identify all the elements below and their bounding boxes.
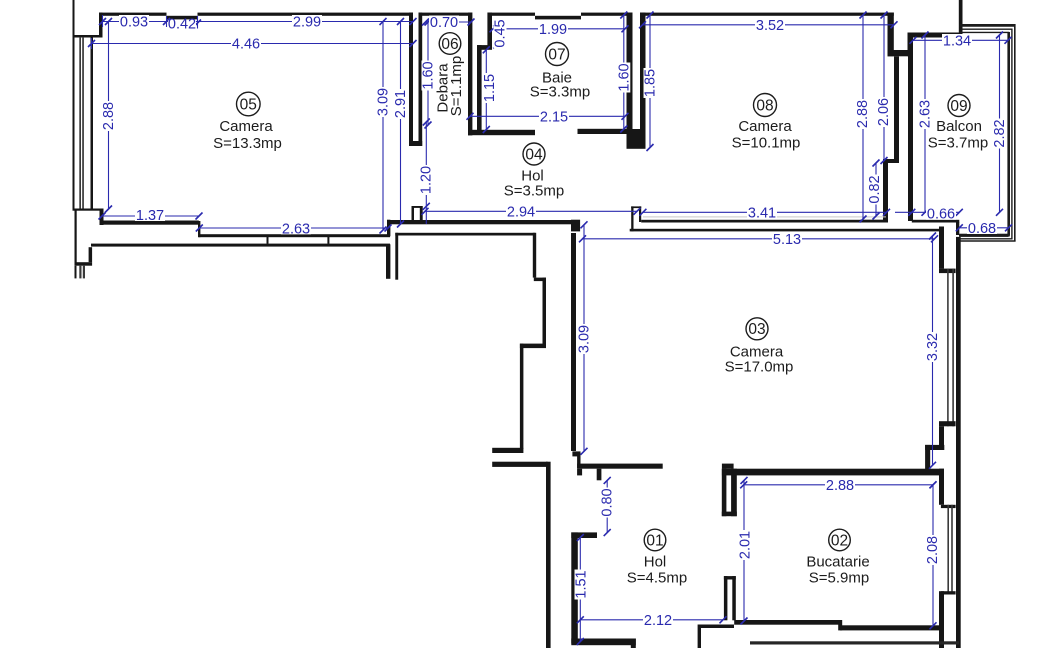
dimlabel 5.13 (772, 233, 802, 246)
wall room08 bottom (641, 220, 886, 223)
dim 1.85 vertical (649, 15, 651, 148)
wall debara left (419, 13, 423, 147)
window bucatarie sill bottom (941, 591, 956, 594)
dim 1.20 vertical (425, 122, 427, 224)
wall entrance jamb vertical (698, 628, 701, 648)
dim 5.13 line (583, 238, 935, 240)
svg-text:1.34: 1.34 (943, 34, 971, 50)
svg-text:05: 05 (240, 96, 257, 113)
wall room05 bottom segment1 (100, 221, 199, 225)
dimlabel 2.88 bucatarie (825, 479, 855, 492)
wall neighbor-left long wall (91, 244, 390, 247)
svg-text:02: 02 (831, 532, 848, 549)
dimlabel 1.60 debara (422, 61, 435, 91)
window room03 right sill bottom (939, 421, 956, 426)
wall rm08-balcony step (883, 159, 899, 163)
svg-text:07: 07 (548, 46, 565, 63)
svg-text:2.99: 2.99 (293, 15, 321, 31)
wall rm08-balcony lower (883, 161, 888, 223)
svg-text:2.08: 2.08 (925, 536, 941, 564)
wall hol01 top stub left (577, 469, 582, 476)
dim 3.52 line (643, 24, 895, 26)
dimlabel 1.20 (420, 165, 433, 195)
dim 4.46 line (92, 43, 414, 45)
wall balcony door side piece (956, 222, 959, 235)
wall right step bar (925, 445, 944, 450)
dimlabel 0.70 (429, 16, 459, 29)
wall bottom boundary line right (750, 641, 959, 644)
svg-text:3.41: 3.41 (748, 206, 776, 222)
dim 3.32 vertical (932, 236, 934, 465)
dimlabel 0.66 (926, 208, 956, 220)
wall baie bottom right (578, 129, 631, 134)
dim 1.60 debara vertical (427, 22, 429, 125)
wall niche bottom bar (888, 50, 913, 56)
faint line above room08 bottom wall (643, 216, 886, 217)
svg-text:09: 09 (950, 98, 967, 115)
wall baie top notch (535, 16, 581, 20)
wall niche right vertical (908, 33, 913, 57)
wall room05 bottom-left corner (100, 209, 104, 226)
room 08 circle (754, 94, 777, 117)
dimlabel 3.32 (926, 332, 939, 362)
wall neighbor bar3 (492, 448, 523, 453)
dimlabel 1.51 (575, 570, 588, 600)
dimlabel 3.52 (755, 18, 785, 31)
wall hol01 door stub (597, 469, 602, 481)
dim 0.45 vertical (496, 23, 498, 45)
door jamb top bar (412, 206, 423, 208)
wall right inner seg4 (939, 591, 944, 648)
dimlabel 2.63 balcony (919, 99, 932, 129)
svg-text:2.63: 2.63 (282, 221, 310, 237)
dimlabel 2.82 (993, 119, 1006, 149)
dim 1.37 line (102, 215, 199, 217)
wall piece B below room05 (386, 244, 390, 278)
dim 1.60 baie vertical (623, 15, 625, 129)
room 01 circle (644, 529, 666, 551)
wall hol01 bottom (571, 639, 636, 646)
dim 2.63 line bottom (199, 227, 388, 229)
svg-text:3.32: 3.32 (925, 333, 941, 361)
window bucatarie glazing (947, 505, 949, 595)
wall bucatarie left lower lineR (732, 576, 736, 620)
wall bottom cap x860 (860, 220, 888, 223)
room 06 circle (439, 33, 461, 55)
svg-text:0.66: 0.66 (927, 207, 955, 223)
wall bucatarie bottom lower part (838, 620, 842, 630)
dim 2.82 vertical x999.5 (999, 35, 1001, 212)
dim 2.15 line (470, 115, 625, 117)
svg-text:Balcon: Balcon (936, 118, 982, 135)
wall room03 top-left corner (571, 220, 580, 232)
wall baie right (627, 13, 633, 130)
svg-text:2.12: 2.12 (644, 613, 672, 629)
wall right outer line (956, 237, 961, 648)
dimlabel 0.82 (868, 175, 881, 205)
wall right of balcony door (912, 220, 960, 223)
door jamb left leg (412, 206, 415, 221)
dimlabel 3.41 (747, 206, 777, 219)
svg-text:2.06: 2.06 (876, 98, 892, 126)
dimlabel 0.42 (168, 21, 196, 31)
dim 2.88 left vertical (108, 22, 110, 210)
dim 2.63 vertical x925 (924, 35, 926, 212)
svg-text:08: 08 (756, 97, 773, 114)
wall neighbor unit left (395, 233, 398, 280)
wall bucatarie bottom upper part (734, 620, 840, 625)
dim 3.41 line (643, 211, 887, 213)
dim 3.09 vertical x383 (382, 22, 384, 231)
wall baie step bar (477, 45, 492, 50)
svg-text:2.94: 2.94 (507, 205, 535, 221)
svg-text:0.70: 0.70 (430, 15, 458, 31)
dimlabel 2.88 x863 (856, 99, 869, 129)
dimlabel 2.12 (643, 614, 673, 627)
svg-text:01: 01 (646, 532, 663, 549)
wall room05 bottom segment2 (199, 234, 391, 237)
dim 0.82 vertical (875, 163, 877, 216)
svg-text:3.52: 3.52 (756, 18, 784, 34)
wall window sill top (73, 35, 101, 38)
dimlabel 0.80 (601, 488, 614, 518)
room 02 circle (829, 529, 851, 551)
parapet middle (960, 28, 1011, 30)
svg-text:S=3.3mp: S=3.3mp (530, 83, 590, 100)
wall bucatarie left lower cap (724, 576, 736, 579)
wall bucatarie left upper cap (722, 512, 737, 517)
dimlabel 2.08 (926, 535, 939, 565)
window W left outer line (73, 37, 75, 209)
svg-text:0.82: 0.82 (867, 175, 883, 203)
dimlabel 2.01 (739, 530, 752, 560)
dim 2.88 vertical x863 (862, 15, 864, 219)
wall pier merge baie-rm08 (627, 129, 641, 149)
dimlabel 2.99 (292, 15, 322, 28)
wall baie left lower (477, 45, 482, 131)
dim 1.99 line (493, 28, 625, 30)
svg-text:0.93: 0.93 (120, 15, 148, 31)
dimlabel 2.63 bottom (281, 222, 311, 235)
svg-text:0.42: 0.42 (168, 17, 196, 33)
wall window sill bottom (73, 209, 100, 211)
svg-text:1.99: 1.99 (539, 22, 567, 38)
svg-text:2.88: 2.88 (101, 102, 117, 130)
dimlabel 1.15 (483, 73, 496, 103)
svg-text:S=1.1mp: S=1.1mp (448, 56, 465, 116)
wall neighbor step bar1 (534, 278, 546, 282)
door jamb hol04 white core (414, 208, 420, 220)
wall debara top (419, 13, 473, 16)
wall room05 top left segment (99, 13, 167, 16)
wall pier left of door (631, 206, 633, 231)
wall room05 top-left corner (99, 13, 103, 38)
dim 2.06 vertical x884 (883, 15, 885, 161)
svg-text:0.68: 0.68 (968, 221, 996, 237)
svg-text:S=4.5mp: S=4.5mp (627, 569, 687, 586)
svg-text:Hol: Hol (644, 553, 667, 570)
window W inner line (91, 37, 94, 209)
svg-text:2.15: 2.15 (540, 109, 568, 125)
wall left sill 2 (75, 262, 93, 266)
svg-text:03: 03 (748, 321, 765, 338)
wall neighbor right mid (543, 278, 547, 348)
dim 0.70 line (426, 21, 472, 23)
wall hol01 top step vertical (577, 456, 580, 468)
svg-text:2.63: 2.63 (918, 100, 934, 128)
wall hol01 bottom corner (631, 639, 636, 648)
wall room08 left (640, 13, 646, 149)
dimlabel 2.88 left (102, 101, 115, 131)
dim 0.66 line (895, 211, 959, 213)
dim 2.01 vertical (743, 480, 745, 621)
wall left connector (89, 247, 93, 262)
svg-text:0.80: 0.80 (600, 488, 616, 516)
dimlabel 0.93 (119, 15, 149, 28)
wall hol01 step bar (572, 451, 580, 456)
dim 2.08 vertical (932, 485, 934, 626)
room 05 circle (237, 92, 261, 116)
svg-text:S=3.7mp: S=3.7mp (928, 134, 988, 151)
wall right step vertical (925, 445, 930, 470)
door jamb right leg (420, 206, 423, 221)
svg-text:S=10.1mp: S=10.1mp (732, 134, 801, 151)
svg-text:S=13.3mp: S=13.3mp (213, 135, 282, 152)
dim 2.88 line bucatarie (744, 484, 933, 486)
svg-text:06: 06 (441, 36, 458, 53)
wall bucatarie left upper lineR (731, 469, 737, 517)
svg-text:2.88: 2.88 (855, 100, 871, 128)
svg-text:S=5.9mp: S=5.9mp (809, 569, 869, 586)
svg-text:Bucatarie: Bucatarie (806, 553, 869, 570)
window room03 glazing (947, 269, 949, 427)
wall entrance jamb bar (698, 625, 734, 629)
dimlabel 3.09 room03 (578, 324, 591, 354)
dim 0.68 line (959, 227, 1008, 229)
wall bucatarie left lower lineL (724, 576, 728, 620)
wall step connector x198 (198, 221, 200, 237)
dimlabel 1.34 (942, 34, 972, 47)
dimlabel 0.68 (967, 222, 997, 235)
parapet inner (960, 31, 1009, 33)
parapet outer (960, 24, 1015, 27)
window W glazing line a (79, 37, 81, 209)
wall connector x387 (387, 220, 390, 237)
dim 1.15 vertical (485, 50, 487, 130)
svg-text:1.20: 1.20 (419, 166, 435, 194)
ROOMLABELS (213, 33, 988, 587)
wall bucatarie top (722, 469, 944, 476)
wall rm08-balcony upper (894, 56, 899, 161)
room 07 circle (546, 43, 569, 66)
wall balcony inner bottom bar (959, 234, 1008, 237)
svg-text:Camera: Camera (738, 118, 792, 135)
wall boundary left low (546, 462, 551, 648)
wall room05 right (409, 13, 413, 147)
svg-text:4.46: 4.46 (232, 37, 260, 53)
svg-text:S=17.0mp: S=17.0mp (725, 358, 794, 375)
svg-text:Camera: Camera (219, 118, 273, 135)
wall frame stub a (267, 236, 269, 244)
wall rm08-balcony right line (908, 33, 913, 222)
svg-text:2.88: 2.88 (826, 478, 854, 494)
wall baie top left segment (488, 13, 535, 16)
svg-text:1.51: 1.51 (574, 570, 590, 598)
wall hol04 bottom (387, 220, 580, 224)
wall neighbor bar4 (492, 462, 548, 467)
dim 3.09 vertical x584 (583, 225, 585, 451)
wall baie left upper (487, 13, 492, 47)
svg-text:1.37: 1.37 (136, 208, 164, 224)
balcony parapet (959, 24, 1016, 241)
svg-text:1.85: 1.85 (643, 69, 659, 97)
wall bucatarie left upper lineL (722, 469, 727, 517)
svg-text:S=3.5mp: S=3.5mp (504, 182, 564, 199)
dim 0.93/0.42/2.99 line (103, 21, 414, 23)
dim 1.51 vertical (579, 538, 581, 642)
room 03 circle (746, 318, 768, 340)
room 04 circle (523, 143, 545, 165)
wall neighbor unit top (395, 233, 535, 236)
wall right inner seg2 (939, 426, 944, 450)
wall neighbor step bar2 (520, 344, 546, 349)
wall hol01 left step bar (571, 532, 597, 538)
dimlabel 2.91 (394, 89, 407, 119)
wall outer line below sill left (75, 211, 77, 264)
wall room05 top notch (0.42) (167, 16, 198, 20)
dimlabel 1.85 (644, 68, 657, 98)
wall right inner seg1 (939, 227, 944, 269)
dimlabel 2.94 (506, 205, 536, 218)
svg-text:5.13: 5.13 (773, 232, 801, 248)
wall debara-baie bottom bar (468, 130, 535, 135)
wall room03 left (571, 233, 576, 451)
svg-text:0.45: 0.45 (493, 19, 509, 47)
wall niche left vertical (888, 13, 894, 57)
svg-text:1.15: 1.15 (482, 74, 498, 102)
dimlabel 2.15 (539, 110, 569, 123)
window left lower glazing (75, 266, 77, 279)
dimlabel 2.06 (877, 97, 890, 127)
svg-text:04: 04 (525, 146, 543, 163)
svg-text:3.09: 3.09 (577, 325, 593, 353)
wall hol01 left (571, 532, 578, 643)
svg-text:2.91: 2.91 (393, 90, 409, 118)
dimlabel 4.46 (231, 37, 261, 50)
wall baie top right segment (581, 13, 631, 16)
room 09 circle (948, 95, 970, 117)
window bucatarie sill top (941, 505, 956, 508)
window W glazing line b (82, 37, 84, 209)
window room03 right sill top (939, 269, 956, 274)
wall neighbor unit right upper (533, 233, 536, 278)
wall bucatarie corner piece (722, 464, 734, 469)
wall outer stub above balcony (959, 0, 963, 38)
svg-text:2.01: 2.01 (738, 531, 754, 559)
dim 1.34 line (913, 39, 1008, 41)
dim 2.12 line (580, 619, 723, 621)
svg-text:2.82: 2.82 (992, 119, 1008, 147)
wall top bar right (913, 33, 961, 38)
wall outer left top line (73, 0, 75, 37)
wall frame stub b (327, 236, 329, 244)
wall hol01 top (577, 464, 663, 469)
wall U cap below debara door (409, 141, 422, 146)
wall room05 top right segment (198, 13, 414, 16)
wall room08 top (640, 13, 894, 16)
svg-text:3.09: 3.09 (376, 88, 392, 116)
dim 2.91 vertical x400.5 (400, 22, 402, 225)
dimlabel 1.99 (538, 22, 568, 35)
dimlabel 0.45 (494, 19, 507, 49)
wall room03 top (630, 229, 944, 232)
wall neighbor right lower (520, 344, 524, 449)
dim 2.94 line (425, 210, 637, 212)
dimlabel 1.60 baie (617, 63, 630, 93)
dimlabel 1.37 (135, 209, 165, 222)
wall debara right (468, 13, 472, 136)
svg-text:1.60: 1.60 (616, 63, 632, 91)
wall right inner seg3 (939, 469, 944, 505)
dimlabel 3.09 (377, 87, 390, 117)
dim 0.80 vertical (606, 480, 608, 532)
